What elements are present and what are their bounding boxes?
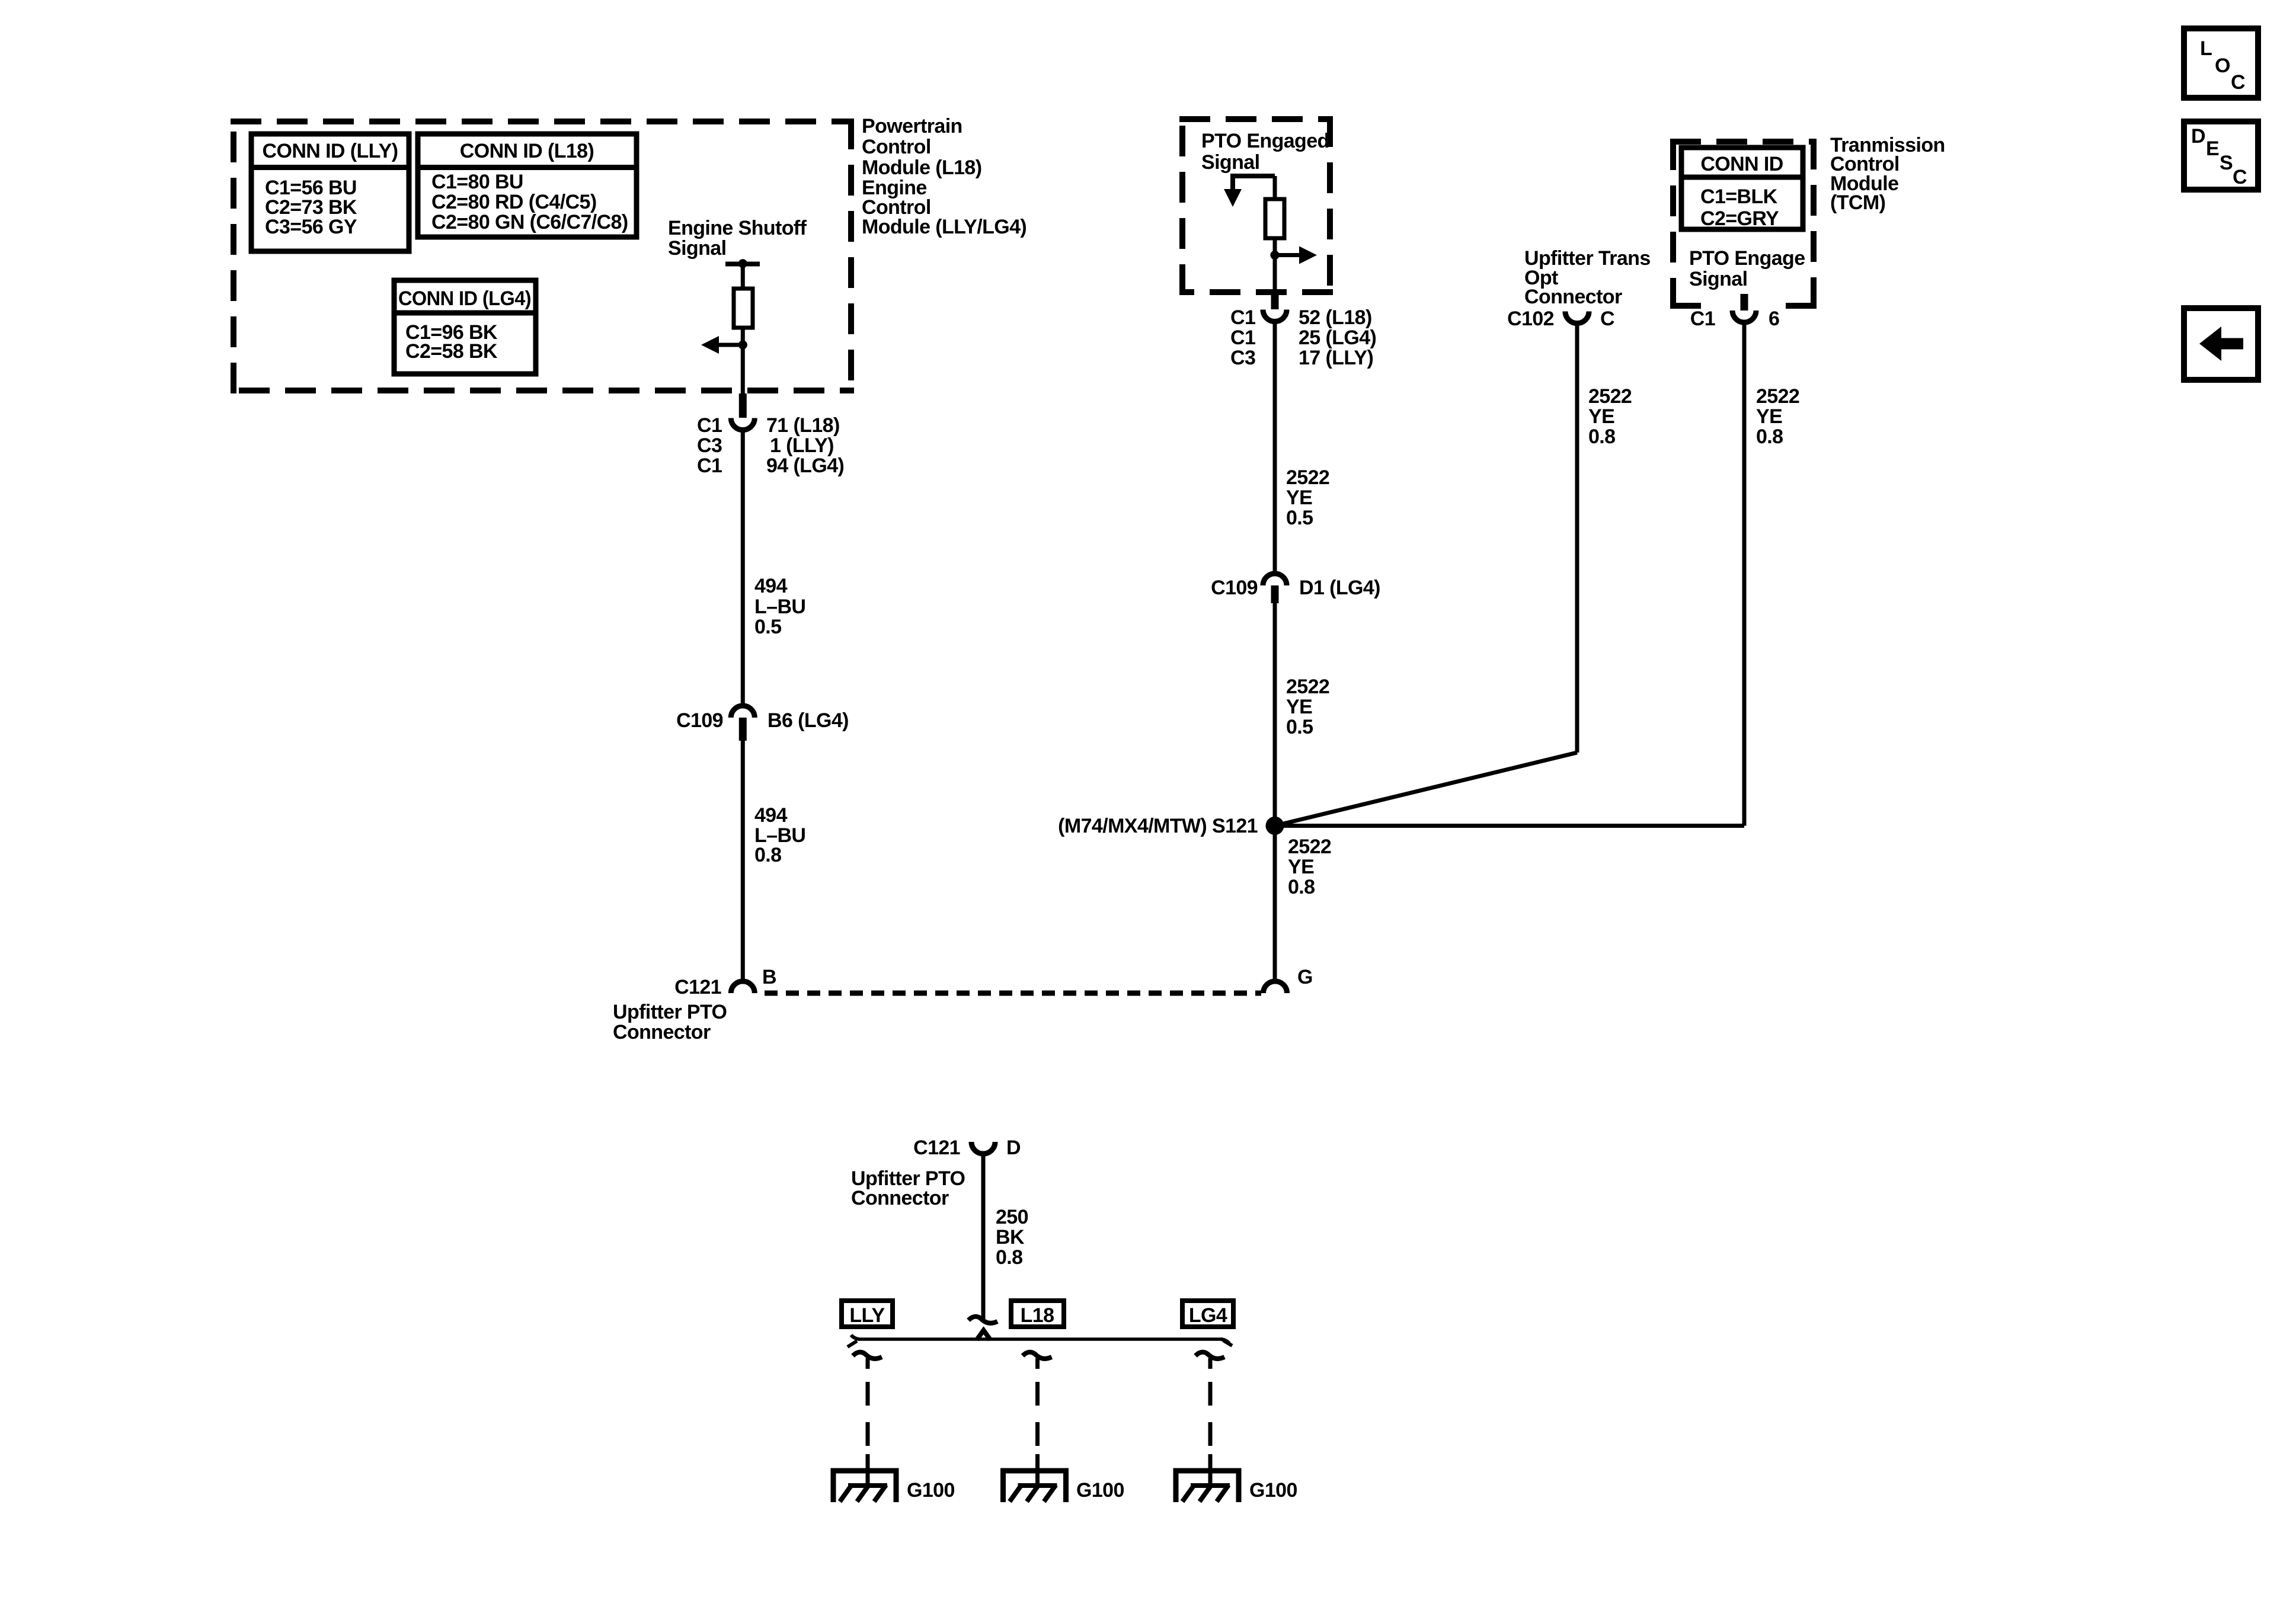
label: Upfitter PTO Connector (bottom) [851, 1167, 965, 1209]
svg-text:Signal: Signal [1201, 151, 1259, 174]
wire label 2522 YE 0.5 [1286, 466, 1329, 529]
svg-text:D: D [2191, 125, 2205, 148]
wire label 2522 YE 0.8 (TCM) [1756, 385, 1799, 448]
svg-text:2522: 2522 [1286, 676, 1329, 698]
wire: resistor to junction [1273, 238, 1277, 255]
wire: C109 D1 down to S121 [1273, 603, 1277, 825]
CONN ID (LG4) table [394, 280, 536, 374]
bus left end hook [851, 1335, 859, 1339]
svg-text:LLY: LLY [849, 1304, 885, 1327]
L18 option box [1011, 1301, 1064, 1327]
svg-text:Connector: Connector [1524, 286, 1622, 308]
wire label 494 L-BU 0.8 [754, 804, 805, 866]
svg-text:71 (L18): 71 (L18) [766, 414, 840, 437]
wire: junction down to box edge [741, 345, 745, 393]
junction dot at arrow [738, 340, 747, 349]
svg-text:YE: YE [1286, 486, 1312, 509]
dashed wire to ground (L18) [1035, 1358, 1040, 1486]
wire label 250 BK 0.8 [996, 1206, 1028, 1269]
svg-text:494: 494 [754, 575, 788, 597]
svg-text:C1: C1 [697, 454, 722, 477]
wire label 2522 YE 0.5 (second) [1286, 676, 1329, 738]
resistor (Engine Shutoff Signal, inside PCM) [734, 289, 753, 328]
label: Upfitter Trans Opt Connector [1524, 247, 1651, 308]
branch curl (LLY) [853, 1352, 882, 1359]
wire: T-bar at top of left resistor [725, 262, 760, 267]
svg-text:C2=GRY: C2=GRY [1700, 207, 1779, 230]
svg-text:LG4: LG4 [1189, 1304, 1227, 1327]
svg-text:0.5: 0.5 [754, 616, 781, 638]
svg-text:PTO Engaged: PTO Engaged [1201, 130, 1329, 152]
connector G [1264, 981, 1287, 993]
svg-text:C3: C3 [1230, 347, 1255, 369]
svg-text:(M74/MX4/MTW) S121: (M74/MX4/MTW) S121 [1058, 815, 1258, 837]
svg-text:C102: C102 [1507, 308, 1554, 330]
label: Engine Shutoff Signal [668, 217, 807, 260]
svg-text:Module (L18): Module (L18) [862, 156, 981, 179]
svg-text:C2=80 RD (C4/C5): C2=80 RD (C4/C5) [431, 191, 597, 213]
junction dot at arrow [1270, 251, 1279, 260]
wire: diagonal C102 to S121 [1275, 753, 1577, 826]
wire: resistor to junction [741, 328, 745, 345]
svg-text:0.8: 0.8 [1588, 425, 1615, 448]
svg-text:C1=BLK: C1=BLK [1700, 185, 1778, 208]
wire: junction down to box edge [1273, 255, 1277, 296]
svg-text:0.5: 0.5 [1286, 507, 1313, 529]
svg-text:L18: L18 [1021, 1304, 1054, 1327]
LOC box [2184, 28, 2258, 98]
connector C121 pin D (bottom) [971, 1142, 995, 1154]
svg-text:CONN ID (L18): CONN ID (L18) [460, 140, 594, 162]
connector C109 D1 (LG4) [1263, 574, 1287, 585]
wire: connector down to C109 B6 [741, 430, 745, 703]
connector pin (PCM left) [739, 393, 747, 418]
arrow pointing left (internal PCM) [718, 343, 743, 347]
svg-text:C1: C1 [1230, 327, 1255, 349]
svg-text:2522: 2522 [1756, 385, 1799, 408]
svg-text:C1: C1 [1690, 308, 1715, 330]
connector C1/C3/C1 cup [731, 418, 754, 430]
ground G100 (L18) [1003, 1471, 1124, 1502]
svg-text:C109: C109 [676, 709, 723, 732]
pin labels 52 (L18) / 25 (LG4) / 17 (LLY) [1299, 306, 1376, 369]
svg-text:C1: C1 [1230, 306, 1255, 329]
svg-text:25 (LG4): 25 (LG4) [1299, 327, 1376, 349]
DESC box [2184, 121, 2258, 190]
dashed box: Transmission Control Module [1670, 139, 1817, 309]
connector pin (PCM middle) [1271, 293, 1279, 309]
connector C109 B6 (LG4) [731, 706, 754, 718]
svg-text:2522: 2522 [1288, 836, 1331, 858]
svg-text:C109: C109 [1211, 577, 1258, 599]
svg-text:O: O [2215, 55, 2230, 77]
svg-text:94 (LG4): 94 (LG4) [766, 454, 844, 477]
svg-text:BK: BK [996, 1226, 1025, 1249]
wire: S121 down to G [1273, 825, 1277, 980]
svg-text:C3: C3 [697, 434, 722, 457]
svg-text:52 (L18): 52 (L18) [1299, 306, 1372, 329]
svg-text:Connector: Connector [613, 1021, 711, 1044]
wire label 2522 YE 0.8 (C102) [1588, 385, 1632, 448]
label: PTO Engage Signal [1689, 247, 1805, 290]
option bus line [858, 1337, 1222, 1341]
svg-text:PTO Engage: PTO Engage [1689, 247, 1805, 270]
branch curl (LG4) [1195, 1352, 1224, 1359]
pin labels C1 C1 C3 [1230, 306, 1255, 369]
svg-text:D1 (LG4): D1 (LG4) [1299, 577, 1380, 599]
svg-text:Signal: Signal [668, 237, 726, 260]
wire: T-bar to resistor [741, 264, 745, 290]
svg-text:C: C [2231, 71, 2245, 94]
svg-text:Engine Shutoff: Engine Shutoff [668, 217, 807, 239]
svg-text:S: S [2220, 152, 2233, 174]
ground G100 (LLY) [833, 1471, 955, 1502]
peak joint on option bus [977, 1330, 990, 1340]
svg-text:494: 494 [754, 804, 788, 827]
svg-text:0.8: 0.8 [754, 844, 781, 866]
svg-text:C2=58 BK: C2=58 BK [405, 340, 498, 363]
internal hook wire with down arrow [1233, 176, 1275, 189]
wire: C121 D down [981, 1154, 986, 1319]
dashed box: Powertrain/Engine Control Module (middle) [1179, 116, 1333, 295]
svg-text:B: B [762, 966, 776, 988]
svg-text:C2=80 GN (C6/C7/C8): C2=80 GN (C6/C7/C8) [431, 211, 628, 233]
svg-text:2522: 2522 [1286, 466, 1329, 489]
crossover curl at wire end [968, 1317, 997, 1323]
svg-text:E: E [2206, 137, 2219, 160]
LLY option box [842, 1301, 893, 1327]
svg-text:Control: Control [862, 136, 931, 158]
dashed box: Powertrain/Engine Control Module (left) [231, 119, 854, 393]
svg-text:CONN ID (LG4): CONN ID (LG4) [398, 287, 531, 310]
pin labels 71 (L18) / 1 (LLY) / 94 (LG4) [766, 414, 844, 477]
bus right end hook [1221, 1339, 1229, 1343]
svg-text:YE: YE [1588, 405, 1614, 428]
svg-text:C121: C121 [674, 976, 721, 998]
ground G100 (LG4) [1176, 1471, 1297, 1502]
wire: C109 B6 down to C121 B [741, 741, 745, 980]
resistor (PTO Engaged Signal, inside PCM) [1265, 199, 1284, 238]
svg-text:C1: C1 [697, 414, 722, 437]
svg-text:250: 250 [996, 1206, 1028, 1228]
svg-text:G: G [1297, 966, 1313, 988]
svg-text:G100: G100 [1249, 1479, 1297, 1502]
svg-text:Signal: Signal [1689, 268, 1747, 290]
svg-text:L–BU: L–BU [754, 596, 805, 618]
wire: horizontal TCM corner to S121 [1275, 824, 1744, 828]
svg-text:17 (LLY): 17 (LLY) [1299, 347, 1373, 369]
wire: connector down to C109 D1 [1273, 321, 1277, 571]
svg-text:1 (LLY): 1 (LLY) [770, 434, 834, 457]
svg-text:(TCM): (TCM) [1830, 191, 1885, 214]
pin labels C1 C3 C1 [697, 414, 722, 477]
wire label 2522 YE 0.8 (below S121) [1288, 836, 1331, 898]
svg-text:CONN ID: CONN ID [1700, 153, 1783, 175]
CONN ID (LLY) table [251, 134, 409, 251]
svg-text:6: 6 [1769, 308, 1779, 330]
wire: C102 down [1575, 323, 1579, 753]
svg-text:YE: YE [1288, 856, 1314, 878]
svg-text:YE: YE [1286, 696, 1312, 718]
dashed wire from B to G [765, 991, 1261, 996]
connector C1 pin 6 cup [1732, 311, 1756, 322]
svg-text:0.8: 0.8 [1288, 876, 1315, 898]
svg-text:Module (LLY/LG4): Module (LLY/LG4) [862, 216, 1027, 238]
connector C1/C1/C3 cup [1263, 310, 1287, 322]
svg-text:Upfitter PTO: Upfitter PTO [613, 1001, 727, 1023]
splice S121 [1266, 817, 1284, 835]
svg-text:0.5: 0.5 [1286, 716, 1313, 738]
svg-text:C: C [2233, 166, 2247, 188]
wire label 494 L-BU 0.5 [754, 575, 805, 638]
label: Powertrain Control Module (L18) Engine Control Module (LLY/LG4) (left) [862, 115, 1027, 238]
svg-text:C1=80 BU: C1=80 BU [431, 171, 523, 193]
svg-text:D: D [1006, 1137, 1021, 1159]
back-arrow box [2184, 308, 2258, 380]
svg-text:C3=56 GY: C3=56 GY [265, 216, 357, 238]
svg-text:B6 (LG4): B6 (LG4) [768, 709, 849, 732]
svg-text:L: L [2200, 37, 2212, 60]
svg-text:Connector: Connector [851, 1187, 949, 1209]
dashed wire to ground (LLY) [866, 1358, 870, 1486]
label: PTO Engaged Signal [1201, 130, 1329, 174]
svg-text:G100: G100 [1076, 1479, 1124, 1502]
branch curl (L18) [1023, 1352, 1052, 1359]
LG4 option box [1182, 1301, 1233, 1327]
svg-text:C: C [1600, 308, 1614, 330]
connector C121 pin B [731, 981, 754, 993]
svg-text:YE: YE [1756, 405, 1782, 428]
svg-text:0.8: 0.8 [996, 1246, 1022, 1269]
svg-text:Powertrain: Powertrain [862, 115, 962, 137]
junction dot on T-bar [738, 259, 747, 268]
arrow pointing right (internal PCM) [1275, 253, 1300, 257]
svg-text:C121: C121 [913, 1137, 960, 1159]
wire: hook to resistor [1273, 176, 1277, 201]
label: Tranmission Control Module (TCM) [1830, 134, 1945, 214]
svg-text:G100: G100 [907, 1479, 955, 1502]
svg-text:CONN ID (LLY): CONN ID (LLY) [263, 140, 398, 162]
wire: TCM down to corner [1742, 322, 1747, 826]
dashed wire to ground (LG4) [1208, 1358, 1213, 1486]
svg-text:2522: 2522 [1588, 385, 1632, 408]
label: Upfitter PTO Connector (left) [613, 1001, 727, 1044]
connector pin (TCM) [1741, 294, 1748, 311]
CONN ID (L18) table [418, 134, 637, 237]
svg-text:0.8: 0.8 [1756, 425, 1783, 448]
connector C102 pin C [1565, 312, 1589, 324]
CONN ID table (TCM) [1681, 148, 1803, 230]
